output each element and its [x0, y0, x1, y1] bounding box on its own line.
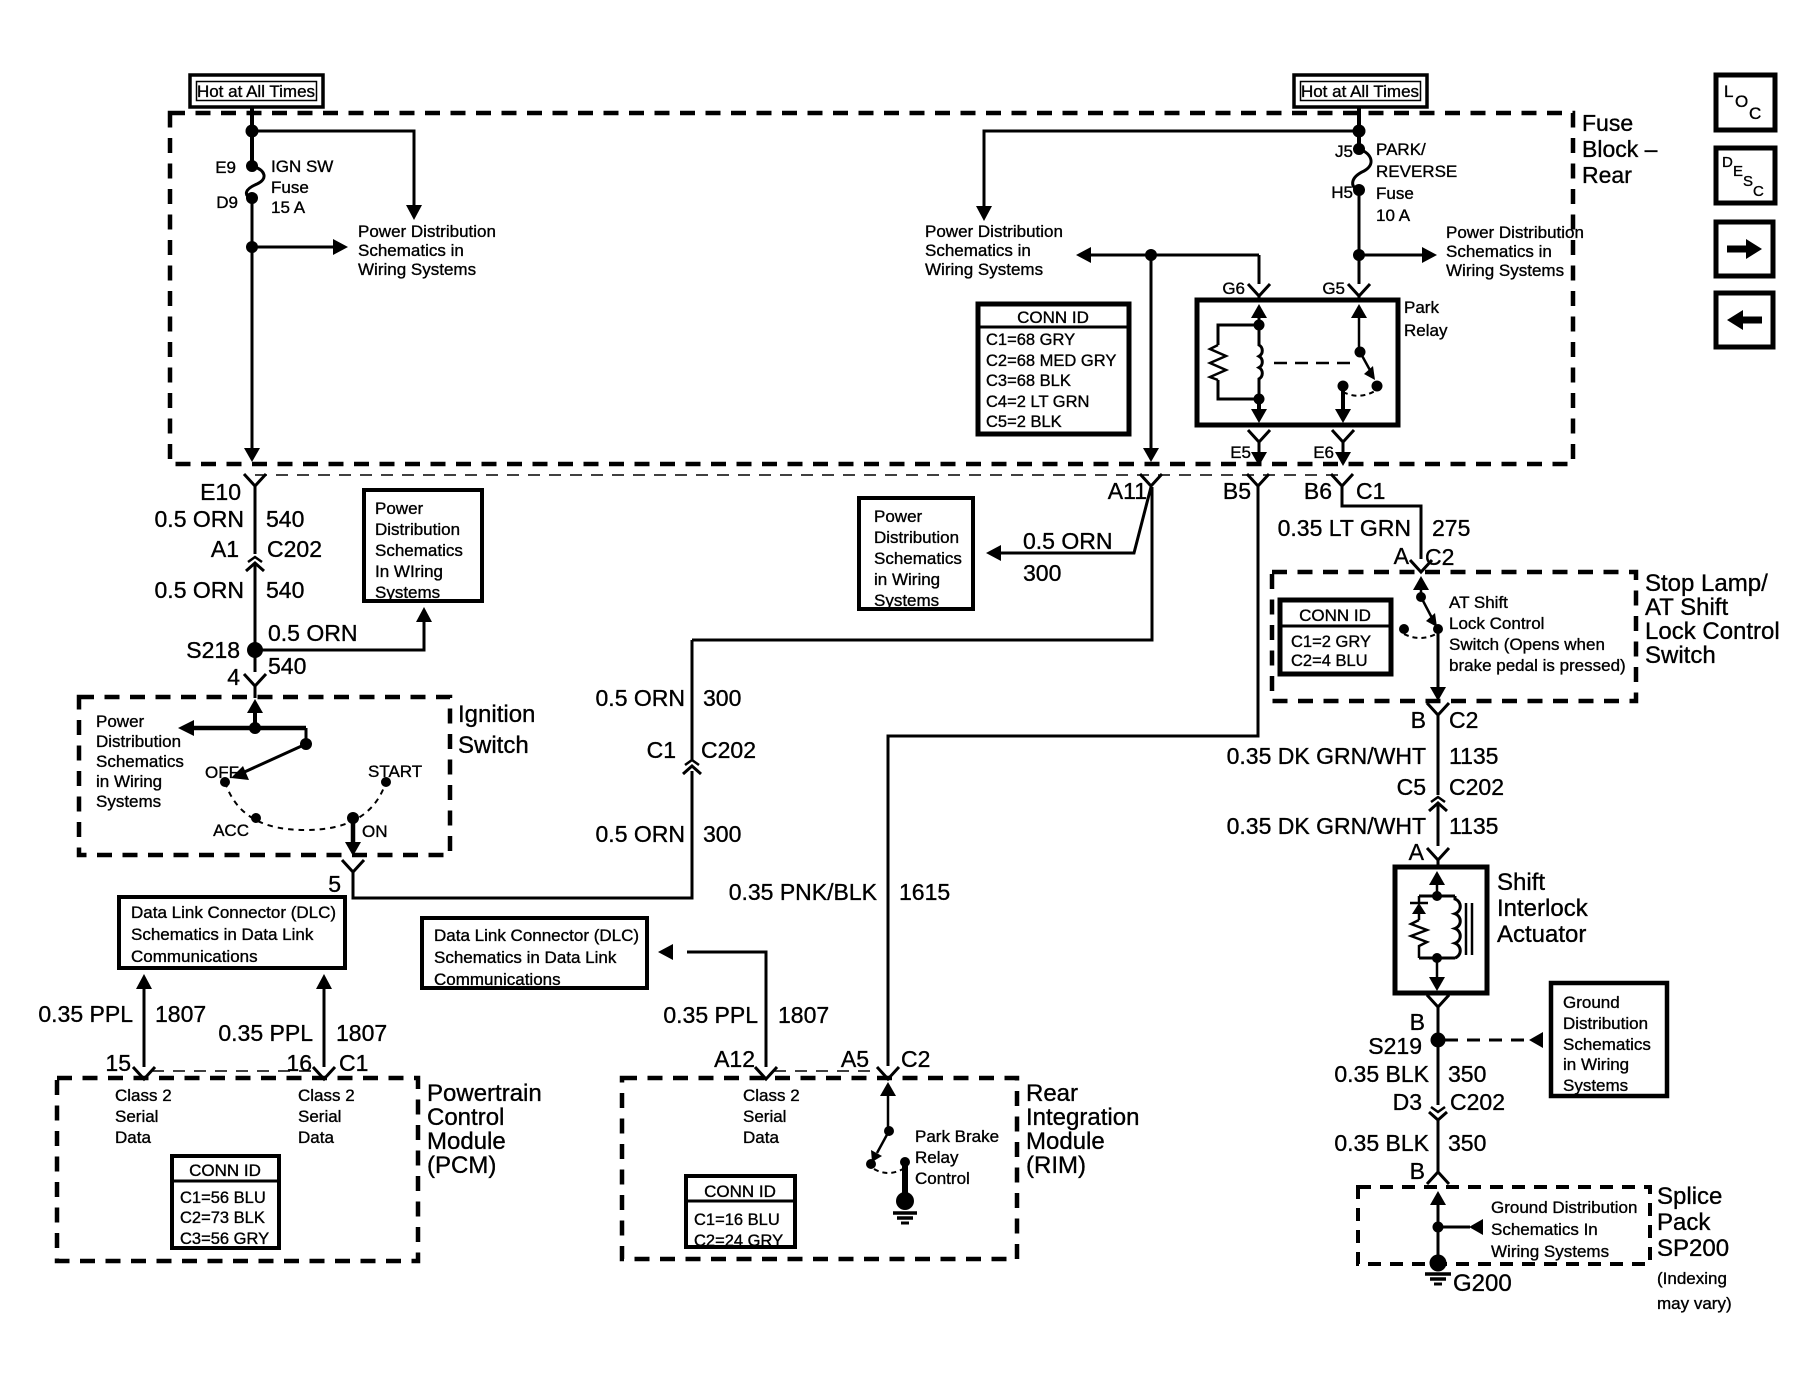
- svg-text:H5: H5: [1331, 183, 1353, 202]
- svg-text:Serial: Serial: [743, 1107, 786, 1126]
- svg-text:B: B: [1410, 1158, 1425, 1184]
- svg-text:C1: C1: [647, 737, 676, 763]
- svg-text:0.35 PPL: 0.35 PPL: [218, 1020, 313, 1046]
- svg-text:Data: Data: [743, 1128, 779, 1147]
- svg-text:0.35 PPL: 0.35 PPL: [663, 1002, 758, 1028]
- svg-text:D: D: [1722, 154, 1733, 171]
- svg-text:Hot at All Times: Hot at All Times: [1301, 82, 1419, 101]
- svg-text:Switch (Opens when: Switch (Opens when: [1449, 635, 1605, 654]
- svg-text:Distribution: Distribution: [1563, 1014, 1648, 1033]
- svg-text:Relay: Relay: [915, 1148, 959, 1167]
- svg-text:Systems: Systems: [96, 792, 161, 811]
- svg-text:Block –: Block –: [1582, 136, 1658, 162]
- svg-text:Ignition: Ignition: [458, 701, 535, 728]
- svg-text:Ground: Ground: [1563, 993, 1620, 1012]
- svg-text:S219: S219: [1368, 1033, 1422, 1059]
- svg-text:Splice: Splice: [1657, 1183, 1722, 1210]
- svg-text:Wiring Systems: Wiring Systems: [1491, 1242, 1609, 1261]
- svg-text:C2: C2: [901, 1046, 930, 1072]
- svg-text:300: 300: [703, 685, 741, 711]
- svg-text:in Wiring: in Wiring: [874, 570, 940, 589]
- svg-text:A12: A12: [714, 1046, 755, 1072]
- svg-text:S: S: [1743, 173, 1753, 190]
- svg-text:Integration: Integration: [1026, 1104, 1139, 1131]
- svg-text:10 A: 10 A: [1376, 206, 1411, 225]
- svg-text:Serial: Serial: [115, 1107, 158, 1126]
- svg-text:15 A: 15 A: [271, 198, 306, 217]
- svg-text:4: 4: [227, 664, 240, 690]
- svg-text:350: 350: [1448, 1130, 1486, 1156]
- svg-text:CONN ID: CONN ID: [1299, 606, 1371, 625]
- svg-text:E: E: [1733, 163, 1743, 180]
- svg-text:Data: Data: [298, 1128, 334, 1147]
- svg-text:AT Shift: AT Shift: [1645, 594, 1728, 621]
- svg-text:Serial: Serial: [298, 1107, 341, 1126]
- svg-text:Fuse: Fuse: [271, 178, 309, 197]
- svg-text:C5: C5: [1397, 774, 1426, 800]
- svg-text:A1: A1: [211, 536, 239, 562]
- svg-text:Data Link Connector (DLC): Data Link Connector (DLC): [434, 926, 639, 945]
- svg-text:Control: Control: [427, 1104, 504, 1131]
- svg-text:A5: A5: [841, 1046, 869, 1072]
- svg-text:Data: Data: [115, 1128, 151, 1147]
- svg-text:Power Distribution: Power Distribution: [1446, 223, 1584, 242]
- svg-text:(Indexing: (Indexing: [1657, 1269, 1727, 1288]
- svg-text:C3=68 BLK: C3=68 BLK: [986, 372, 1071, 390]
- svg-text:1807: 1807: [778, 1002, 829, 1028]
- svg-text:Switch: Switch: [458, 732, 529, 759]
- svg-text:Switch: Switch: [1645, 642, 1716, 669]
- svg-text:0.5 ORN: 0.5 ORN: [155, 577, 244, 603]
- svg-text:C1=16 BLU: C1=16 BLU: [694, 1211, 780, 1229]
- svg-text:C1: C1: [339, 1050, 368, 1076]
- svg-text:Park Brake: Park Brake: [915, 1127, 999, 1146]
- svg-text:IGN SW: IGN SW: [271, 157, 333, 176]
- svg-text:B5: B5: [1223, 478, 1251, 504]
- svg-text:Class 2: Class 2: [298, 1086, 355, 1105]
- svg-text:Relay: Relay: [1404, 321, 1448, 340]
- svg-text:A11: A11: [1108, 478, 1147, 504]
- svg-text:C2=24 GRY: C2=24 GRY: [694, 1232, 783, 1250]
- svg-text:C1=56 BLU: C1=56 BLU: [180, 1189, 266, 1207]
- svg-text:Class 2: Class 2: [743, 1086, 800, 1105]
- svg-text:C2=4 BLU: C2=4 BLU: [1291, 652, 1368, 670]
- svg-text:Power Distribution: Power Distribution: [925, 222, 1063, 241]
- svg-text:Schematics: Schematics: [96, 752, 184, 771]
- svg-text:C202: C202: [1450, 1089, 1505, 1115]
- svg-text:1615: 1615: [899, 879, 950, 905]
- svg-text:B6: B6: [1304, 478, 1332, 504]
- svg-text:Ground Distribution: Ground Distribution: [1491, 1198, 1637, 1217]
- svg-text:Systems: Systems: [375, 583, 440, 602]
- svg-text:Schematics in: Schematics in: [358, 241, 464, 260]
- svg-text:START: START: [368, 762, 422, 781]
- svg-text:B: B: [1410, 1009, 1425, 1035]
- svg-text:C202: C202: [267, 536, 322, 562]
- svg-text:D3: D3: [1393, 1089, 1422, 1115]
- svg-text:Rear: Rear: [1582, 162, 1632, 188]
- svg-text:REVERSE: REVERSE: [1376, 162, 1457, 181]
- svg-text:Fuse: Fuse: [1376, 184, 1414, 203]
- svg-text:C1=68 GRY: C1=68 GRY: [986, 331, 1075, 349]
- svg-text:C5=2 BLK: C5=2 BLK: [986, 413, 1062, 431]
- svg-text:ACC: ACC: [213, 821, 249, 840]
- svg-text:may vary): may vary): [1657, 1294, 1732, 1313]
- svg-text:E9: E9: [215, 158, 236, 177]
- svg-text:G5: G5: [1322, 279, 1345, 298]
- svg-text:5: 5: [328, 871, 341, 897]
- svg-text:Wiring Systems: Wiring Systems: [1446, 261, 1564, 280]
- svg-text:350: 350: [1448, 1061, 1486, 1087]
- svg-text:0.5 ORN: 0.5 ORN: [596, 821, 685, 847]
- svg-text:0.35 DK GRN/WHT: 0.35 DK GRN/WHT: [1227, 743, 1426, 769]
- svg-text:Module: Module: [427, 1128, 506, 1155]
- svg-text:275: 275: [1432, 515, 1470, 541]
- svg-text:C202: C202: [701, 737, 756, 763]
- svg-text:A: A: [1394, 543, 1410, 569]
- svg-text:0.35 BLK: 0.35 BLK: [1334, 1061, 1429, 1087]
- svg-text:16: 16: [286, 1050, 312, 1076]
- svg-text:CONN ID: CONN ID: [189, 1161, 261, 1180]
- svg-text:E10: E10: [200, 479, 241, 505]
- svg-text:C1: C1: [1356, 478, 1385, 504]
- svg-text:(RIM): (RIM): [1026, 1152, 1086, 1179]
- svg-text:Communications: Communications: [434, 970, 561, 989]
- svg-text:Lock Control: Lock Control: [1449, 614, 1544, 633]
- svg-text:0.35 PPL: 0.35 PPL: [38, 1001, 133, 1027]
- svg-text:Systems: Systems: [874, 591, 939, 610]
- svg-text:Lock Control: Lock Control: [1645, 618, 1780, 645]
- svg-text:1135: 1135: [1449, 743, 1498, 769]
- svg-text:Distribution: Distribution: [96, 732, 181, 751]
- svg-text:SP200: SP200: [1657, 1235, 1729, 1262]
- svg-text:15: 15: [105, 1050, 131, 1076]
- svg-text:Schematics in: Schematics in: [1446, 242, 1552, 261]
- svg-text:Module: Module: [1026, 1128, 1105, 1155]
- svg-text:540: 540: [266, 577, 304, 603]
- svg-text:Hot at All Times: Hot at All Times: [197, 82, 315, 101]
- svg-text:540: 540: [268, 653, 306, 679]
- svg-text:AT Shift: AT Shift: [1449, 593, 1508, 612]
- svg-text:Power: Power: [96, 712, 145, 731]
- svg-text:0.35 LT GRN: 0.35 LT GRN: [1278, 515, 1411, 541]
- svg-text:Distribution: Distribution: [874, 528, 959, 547]
- svg-text:C2=73 BLK: C2=73 BLK: [180, 1209, 265, 1227]
- svg-text:C4=2 LT GRN: C4=2 LT GRN: [986, 393, 1089, 411]
- svg-text:0.5 ORN: 0.5 ORN: [155, 506, 244, 532]
- svg-text:0.5 ORN: 0.5 ORN: [596, 685, 685, 711]
- svg-text:1807: 1807: [155, 1001, 206, 1027]
- svg-text:brake pedal is pressed): brake pedal is pressed): [1449, 656, 1626, 675]
- svg-text:Distribution: Distribution: [375, 520, 460, 539]
- svg-text:L: L: [1724, 82, 1733, 101]
- svg-text:C2=68 MED GRY: C2=68 MED GRY: [986, 352, 1116, 370]
- svg-text:Wiring Systems: Wiring Systems: [358, 260, 476, 279]
- svg-text:Fuse: Fuse: [1582, 110, 1633, 136]
- svg-text:Power: Power: [375, 499, 424, 518]
- svg-text:E5: E5: [1230, 443, 1251, 462]
- svg-text:C2: C2: [1425, 544, 1454, 570]
- svg-text:CONN ID: CONN ID: [704, 1182, 776, 1201]
- svg-text:In WIring: In WIring: [375, 562, 443, 581]
- svg-text:Communications: Communications: [131, 947, 258, 966]
- svg-text:Powertrain: Powertrain: [427, 1080, 542, 1107]
- svg-text:0.5 ORN: 0.5 ORN: [1023, 528, 1112, 554]
- svg-text:ON: ON: [362, 822, 388, 841]
- svg-text:Interlock: Interlock: [1497, 895, 1589, 922]
- svg-text:Power Distribution: Power Distribution: [358, 222, 496, 241]
- svg-text:Schematics: Schematics: [874, 549, 962, 568]
- svg-text:(PCM): (PCM): [427, 1152, 496, 1179]
- svg-text:Systems: Systems: [1563, 1076, 1628, 1095]
- svg-text:C: C: [1749, 104, 1761, 123]
- svg-text:Class 2: Class 2: [115, 1086, 172, 1105]
- svg-text:Power: Power: [874, 507, 923, 526]
- svg-text:D9: D9: [216, 193, 238, 212]
- svg-text:Shift: Shift: [1497, 869, 1545, 896]
- svg-text:S218: S218: [186, 637, 240, 663]
- svg-text:0.35 PNK/BLK: 0.35 PNK/BLK: [729, 879, 878, 905]
- svg-text:1135: 1135: [1449, 813, 1498, 839]
- svg-text:A: A: [1409, 839, 1425, 865]
- svg-text:0.5 ORN: 0.5 ORN: [268, 620, 357, 646]
- svg-text:Schematics in Data Link: Schematics in Data Link: [434, 948, 617, 967]
- svg-text:in Wiring: in Wiring: [1563, 1055, 1629, 1074]
- svg-text:300: 300: [1023, 560, 1061, 586]
- svg-text:C3=56 GRY: C3=56 GRY: [180, 1230, 269, 1248]
- svg-text:C2: C2: [1449, 707, 1478, 733]
- svg-text:B: B: [1411, 707, 1426, 733]
- svg-text:Wiring Systems: Wiring Systems: [925, 260, 1043, 279]
- svg-text:O: O: [1735, 92, 1748, 111]
- svg-text:Schematics: Schematics: [1563, 1035, 1651, 1054]
- svg-text:G200: G200: [1453, 1270, 1512, 1297]
- svg-text:Schematics: Schematics: [375, 541, 463, 560]
- svg-text:C: C: [1753, 183, 1764, 200]
- svg-text:G6: G6: [1222, 279, 1245, 298]
- svg-text:C202: C202: [1449, 774, 1504, 800]
- svg-text:Data Link Connector (DLC): Data Link Connector (DLC): [131, 903, 336, 922]
- svg-text:OFF: OFF: [205, 763, 239, 782]
- svg-text:Schematics in Data Link: Schematics in Data Link: [131, 925, 314, 944]
- svg-text:1807: 1807: [336, 1020, 387, 1046]
- svg-text:300: 300: [703, 821, 741, 847]
- svg-text:CONN ID: CONN ID: [1017, 308, 1089, 327]
- svg-text:E6: E6: [1313, 443, 1334, 462]
- svg-text:Actuator: Actuator: [1497, 921, 1586, 948]
- svg-text:0.35 DK GRN/WHT: 0.35 DK GRN/WHT: [1227, 813, 1426, 839]
- svg-text:Control: Control: [915, 1169, 970, 1188]
- svg-text:PARK/: PARK/: [1376, 140, 1426, 159]
- svg-text:Rear: Rear: [1026, 1080, 1078, 1107]
- svg-text:Stop Lamp/: Stop Lamp/: [1645, 570, 1768, 597]
- svg-text:0.35 BLK: 0.35 BLK: [1334, 1130, 1429, 1156]
- svg-text:J5: J5: [1335, 142, 1353, 161]
- svg-text:in Wiring: in Wiring: [96, 772, 162, 791]
- svg-text:Schematics In: Schematics In: [1491, 1220, 1598, 1239]
- svg-text:Schematics in: Schematics in: [925, 241, 1031, 260]
- svg-text:540: 540: [266, 506, 304, 532]
- svg-text:Pack: Pack: [1657, 1209, 1711, 1236]
- svg-text:Park: Park: [1404, 298, 1439, 317]
- svg-text:C1=2 GRY: C1=2 GRY: [1291, 633, 1371, 651]
